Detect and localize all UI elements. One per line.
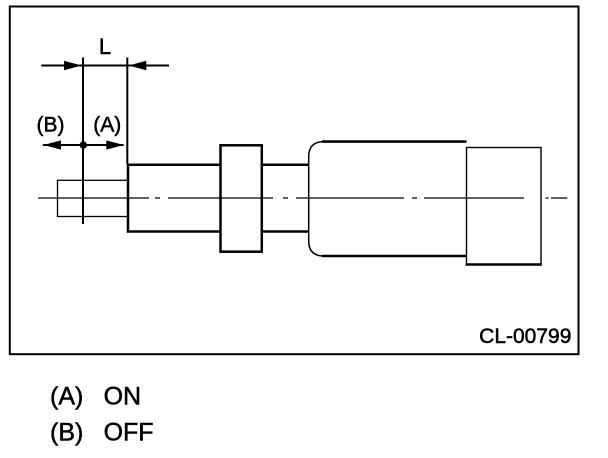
svg-text:L: L	[99, 34, 111, 59]
svg-text:(B): (B)	[37, 114, 65, 137]
svg-text:(B): (B)	[50, 418, 83, 446]
svg-text:CL-00799: CL-00799	[479, 325, 571, 348]
svg-text:OFF: OFF	[104, 418, 154, 446]
svg-text:(A): (A)	[50, 382, 83, 410]
svg-text:ON: ON	[104, 382, 142, 410]
svg-text:(A): (A)	[93, 114, 121, 137]
